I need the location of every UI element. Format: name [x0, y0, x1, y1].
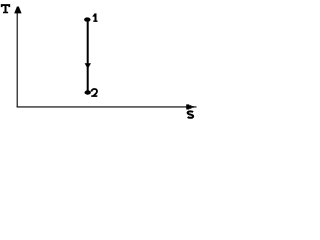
T axis label — [1, 4, 10, 13]
node 1 dot — [84, 17, 90, 21]
S axis (horizontal) — [17, 106, 197, 108]
T axis arrowhead (up) — [14, 7, 21, 14]
process direction arrowhead (down) — [85, 63, 91, 69]
T axis (vertical) — [16, 7, 18, 107]
S axis arrowhead (right) — [186, 104, 194, 109]
node 2 dot — [85, 90, 91, 94]
process line from node 1 to node 2 — [87, 20, 89, 93]
node 1 label — [92, 13, 97, 22]
node 2 label — [91, 89, 97, 97]
S axis label — [188, 111, 194, 117]
